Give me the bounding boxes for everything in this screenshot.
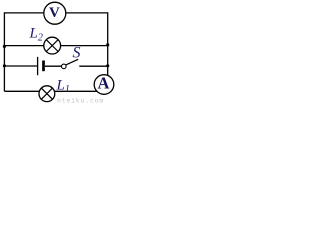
lamp L2 circle — [44, 37, 61, 54]
switch S pivot circle — [62, 64, 67, 69]
battery long plate (+) — [37, 57, 39, 75]
node junction dot left-battery-row — [3, 64, 6, 67]
svg-text:nteiku.com: nteiku.com — [57, 97, 104, 104]
switch S lever — [66, 59, 78, 65]
svg-text:S: S — [73, 45, 81, 62]
wire bottom-right (lamp L1 to ammeter) — [55, 90, 97, 92]
voltmeter V circle — [44, 2, 66, 24]
wire left vertical — [3, 12, 5, 91]
ammeter A circle — [94, 75, 114, 95]
svg-text:V: V — [49, 5, 60, 21]
wire row2 left (node to lamp L2) — [4, 45, 44, 47]
wire row2 right (lamp L2 to right rail) — [61, 45, 108, 47]
wire battery to switch pivot — [45, 65, 61, 67]
wire battery-row left (node to battery) — [4, 65, 37, 67]
node junction dot right-battery-row — [106, 64, 109, 67]
svg-text:A: A — [98, 74, 110, 93]
lamp L1 cross — [41, 88, 52, 99]
wire top-right segment — [66, 12, 108, 14]
node junction dot right-row2 — [106, 43, 109, 46]
lamp L1 circle — [39, 86, 55, 102]
wire switch to right rail — [79, 65, 107, 67]
wire bottom-left (corner to lamp L1) — [4, 90, 39, 92]
wire right vertical — [107, 12, 109, 75]
node junction dot left-row2 — [3, 45, 6, 48]
wire top-left segment — [4, 12, 44, 14]
lamp L2 cross — [46, 40, 58, 52]
battery short thick plate (-) — [42, 61, 45, 72]
